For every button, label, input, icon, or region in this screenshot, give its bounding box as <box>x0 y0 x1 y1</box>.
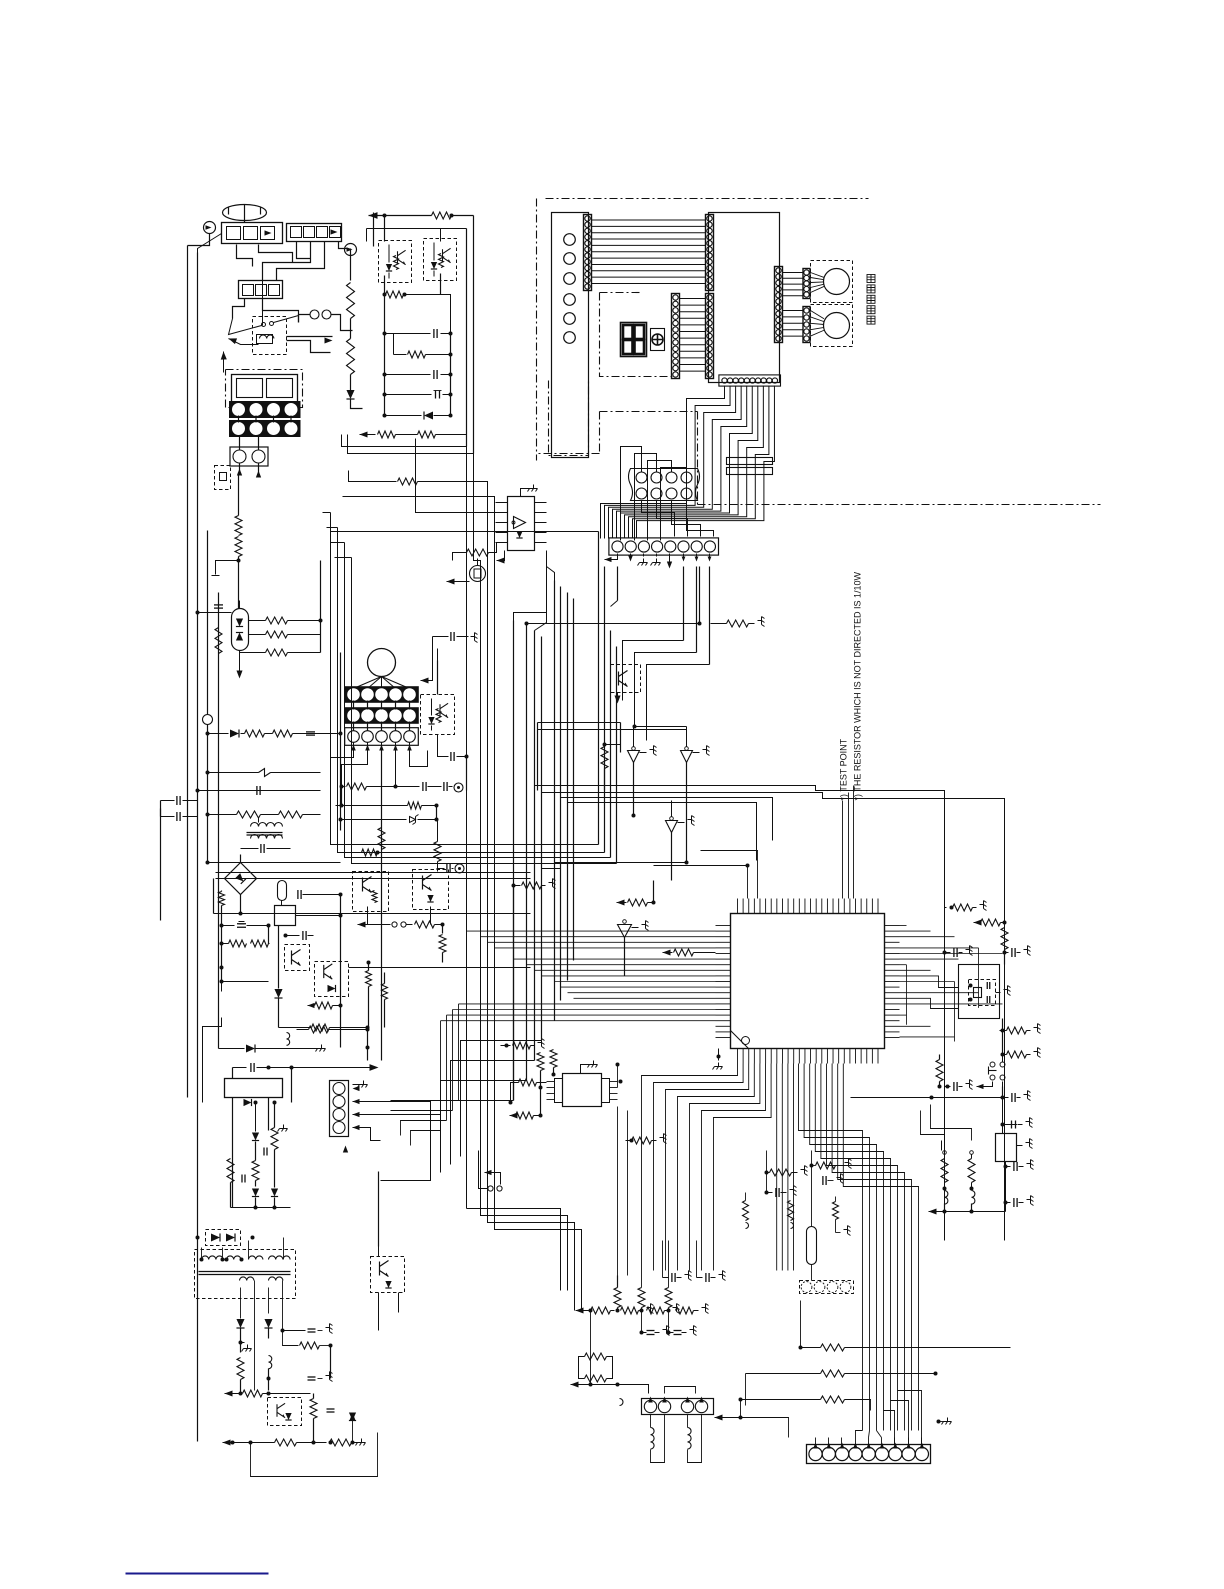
bottom fanout <box>642 1064 738 1271</box>
bus verticals group A with step tops <box>342 435 467 1191</box>
jumper link J1 <box>485 1170 492 1175</box>
resistor R40 vertical <box>271 1128 278 1150</box>
diode arrow <box>349 1413 356 1421</box>
right fanout lines <box>900 925 907 927</box>
key buttons <box>564 234 576 246</box>
inverter G1 <box>633 727 635 747</box>
connector strip CN10 right <box>706 215 714 291</box>
oscillator X2 <box>470 566 486 582</box>
fuse F1 <box>310 310 319 319</box>
capacitor C26 gnd <box>1004 1201 1008 1205</box>
CN22 pin arrows <box>648 1397 653 1403</box>
regulator U14 <box>275 906 296 926</box>
connector CN1 <box>222 223 283 244</box>
U10 top pins <box>737 899 739 914</box>
photocoupler PC1 <box>379 241 412 283</box>
display box boundary <box>600 293 673 377</box>
connector CN21 9pin <box>807 1445 931 1464</box>
arrow resistor R31 <box>974 919 982 925</box>
resistor R56 gnd <box>765 1171 769 1175</box>
row y1332 zeners <box>640 1331 644 1335</box>
horizontal bus y785-802 to right column <box>535 786 945 1241</box>
resistor R3b row <box>393 334 395 355</box>
svg-text:*) TEST POINT: *) TEST POINT <box>839 738 849 800</box>
curl <box>620 1399 624 1406</box>
capacitor C2 <box>383 373 387 377</box>
diode D17 <box>278 926 280 989</box>
bus verticals group C <box>554 581 556 1021</box>
resistor R61 R62 row <box>220 942 224 946</box>
svg-text:*) THE RESISTOR WHICH IS NOT D: *) THE RESISTOR WHICH IS NOT DIRECTED IS… <box>853 571 863 800</box>
buzzer strip CN12b <box>803 307 810 343</box>
wire <box>218 593 220 661</box>
resistor R17 <box>279 811 303 818</box>
terminal strip TS1 row2 <box>230 421 301 437</box>
resistor R34 <box>1007 1051 1027 1058</box>
diode D12 D13 vertical <box>252 1189 259 1197</box>
resistor R50 gnd <box>630 1139 634 1143</box>
bridge rectifier DB1 <box>225 863 257 895</box>
resistor R35 vertical <box>936 1060 943 1082</box>
squiggle resistor RV2 <box>788 1201 794 1221</box>
capacitor C21 gnd <box>1003 951 1007 955</box>
arrow to heater <box>229 339 259 345</box>
varistor ZNR1 <box>232 609 249 651</box>
thermal fuse / heater resistor R-line <box>350 249 352 281</box>
transformer T1 <box>251 823 267 827</box>
transistor Q1 in dashed box <box>611 665 641 693</box>
resistor R5 <box>418 431 436 438</box>
bottom fanout middle <box>776 1064 778 1271</box>
eeprom U12 <box>563 1074 602 1107</box>
relay RY1 <box>253 317 287 355</box>
diode D1 row <box>383 414 387 418</box>
wire feeds <box>921 1111 945 1141</box>
wires below motor <box>353 743 355 749</box>
buzzer strip CN12a <box>803 269 810 299</box>
capacitor C31 <box>263 1148 265 1156</box>
wire <box>1002 1055 1004 1063</box>
arrow right <box>292 1067 371 1069</box>
wire <box>239 464 241 475</box>
row y924 under PC boxes <box>358 921 366 927</box>
diode D15 <box>236 1319 244 1328</box>
wire <box>216 872 531 874</box>
horizontal pair from left y872 y878 <box>216 872 531 874</box>
arrow resistor mid <box>663 949 671 955</box>
resistor R11 <box>266 617 288 624</box>
left fanout lines <box>467 930 716 932</box>
small box E3 <box>215 466 231 490</box>
resistor R57 gnd <box>810 1164 814 1168</box>
left rail bottom <box>198 1441 223 1443</box>
resistor R30 gnd <box>950 906 954 910</box>
resistor R43 vertical <box>237 1358 244 1380</box>
transformer top leads <box>201 1248 203 1260</box>
photocoupler PC4 <box>268 1398 302 1426</box>
gnd of U12 <box>581 1065 591 1074</box>
U2 top gnd <box>521 489 531 497</box>
resistor R66 vertical <box>439 935 446 953</box>
resistor pair R54 R55 <box>585 1353 607 1360</box>
resistor R3 <box>383 293 387 297</box>
tact switch SW1 <box>990 1062 995 1067</box>
capacitor C32 <box>241 1175 243 1183</box>
capacitor C30 <box>233 1067 247 1069</box>
right bus bottom <box>931 1240 945 1242</box>
motor terminal row2 <box>345 708 419 724</box>
bottom row 1 <box>225 1390 233 1396</box>
boundary dash-dot near display <box>599 412 601 454</box>
resistor R65 <box>312 1024 330 1031</box>
arrow row y1384 <box>571 1381 579 1387</box>
resistor R15 <box>273 730 293 737</box>
connector CN3 <box>239 281 283 299</box>
capacitor C41 gnd <box>697 1277 703 1279</box>
resistor R12 <box>266 631 288 638</box>
connector CN13 10pin <box>719 375 781 386</box>
junction wire <box>555 862 687 864</box>
solenoid SL1 <box>650 1415 652 1428</box>
motor leads <box>354 677 382 689</box>
resistor R4 <box>378 431 396 438</box>
row y819 <box>341 819 407 821</box>
bus verticals group B <box>513 621 515 1101</box>
motor terminal row3 <box>345 728 419 746</box>
wire <box>340 653 342 831</box>
ribbon wires 3 <box>783 272 803 274</box>
capacitor C51 <box>286 935 300 937</box>
row y805 <box>341 787 343 806</box>
display main board <box>709 213 780 383</box>
resistor R59b vertical <box>550 1050 557 1068</box>
photocoupler PC5 <box>353 872 389 912</box>
capacitor C1 <box>383 332 387 336</box>
inductor L2 <box>269 1356 272 1369</box>
arrow resistor row y1115 <box>510 1112 518 1118</box>
motor M1 <box>368 649 396 677</box>
resistor R16 <box>237 811 261 818</box>
capacitor C42 gnd <box>765 1191 769 1195</box>
resistor R59c <box>519 1079 537 1086</box>
CN20 arrows <box>353 1084 361 1086</box>
staircase down-left y844-880 <box>331 513 599 845</box>
squiggle resistor RV3 <box>833 1202 839 1220</box>
zener cap row y925 <box>220 924 224 928</box>
right link to crystal <box>900 958 959 960</box>
driver IC U2 <box>508 497 535 551</box>
photocoupler PC2 <box>424 239 457 281</box>
solenoid SL2 <box>687 1415 689 1428</box>
arrow <box>447 578 455 584</box>
capacitor C8 <box>450 752 452 761</box>
inverter G2 <box>685 747 689 751</box>
long wire y531 <box>331 531 599 533</box>
capacitor C50 <box>287 895 294 897</box>
transistor Q2 box <box>285 945 310 971</box>
gnd mid <box>239 1341 243 1345</box>
row y1310 resistors <box>576 1307 584 1313</box>
gnd right <box>937 1420 941 1424</box>
resistor R14 <box>245 730 265 737</box>
inverter G4 <box>623 920 627 924</box>
resistor R64 vertical <box>382 984 388 1000</box>
footer line <box>126 1573 269 1575</box>
wires into CN21 <box>789 1431 816 1438</box>
wires between strips <box>238 416 240 423</box>
resistor R60 vertical <box>219 892 225 906</box>
resistor R2 <box>432 212 452 219</box>
resistor R13 <box>266 649 288 656</box>
diode D11 vertical <box>252 1133 259 1141</box>
diode D2 row <box>360 431 368 437</box>
capacitor C40 gnd <box>663 1277 669 1279</box>
bus verticals to CN21 <box>862 1180 864 1431</box>
wire <box>233 299 245 319</box>
arrow left CN21 <box>715 1414 723 1420</box>
photocoupler PC7 <box>315 962 349 997</box>
test point terminal TP1 <box>437 868 445 870</box>
buzzer BZ2 <box>811 305 853 347</box>
inductor L1 <box>259 769 271 777</box>
resistor R41 vertical <box>227 1159 234 1183</box>
wire U2 pin feed <box>416 439 496 513</box>
wire to dashed box E4 <box>221 982 223 992</box>
membrane key panel <box>552 213 589 458</box>
lamp <box>203 715 213 725</box>
horizontal wire y1097 <box>851 1097 932 1099</box>
res R23 with gnd <box>512 884 516 888</box>
capacitor C5 <box>176 796 178 805</box>
wire <box>384 276 386 295</box>
wire left rail <box>187 311 189 531</box>
wire bus under bridge <box>214 913 531 915</box>
capacitor C2b row <box>383 393 387 397</box>
CN21 pin arrows <box>813 1443 818 1449</box>
resistor R18 vertical <box>378 828 385 850</box>
top pins up wires <box>654 866 748 899</box>
wire <box>287 341 331 353</box>
capacitor C43 gnd <box>812 1180 818 1182</box>
horizontal bus y623 long <box>527 623 700 625</box>
connector CN20 4pin vertical <box>330 1081 349 1137</box>
terminal links <box>353 701 355 710</box>
buzzer strip CN11 <box>775 267 783 343</box>
capacitor C6 <box>260 844 262 853</box>
motor terminal row1 <box>345 687 419 703</box>
capacitor C7 <box>450 632 452 641</box>
ribbon connector CN14 2x4 <box>629 469 700 501</box>
arrow resistor at top <box>617 899 625 905</box>
capacitor C33 <box>327 1408 335 1410</box>
crystal circuit box <box>959 965 1000 1019</box>
wires right of PC7 <box>349 967 531 969</box>
gnd at left bottom of mcu <box>717 1055 721 1059</box>
dashed connector CN23 <box>800 1281 854 1294</box>
wires CN14 top nest <box>621 447 642 541</box>
main switch wires <box>262 281 264 326</box>
ground terminal E2 <box>339 242 347 249</box>
arrow resistor row y1005 <box>308 1003 315 1008</box>
connector CN15 8pin <box>609 538 719 555</box>
ground terminal E1 <box>204 222 216 234</box>
wire top row <box>287 1033 290 1046</box>
wire <box>237 245 253 267</box>
diode pair box D14 <box>206 1230 241 1246</box>
wire left rails <box>187 531 189 1098</box>
resistor R19 <box>362 849 378 856</box>
U2 pins <box>496 502 508 504</box>
wire step group to bottom <box>467 1209 561 1291</box>
wire <box>384 295 386 334</box>
wire <box>635 721 687 727</box>
CN15 pin arrows <box>605 557 612 562</box>
microcontroller U10 <box>731 914 885 1049</box>
photocoupler PC3 <box>421 695 455 735</box>
wire <box>373 213 375 247</box>
photocoupler PC8 <box>371 1257 405 1293</box>
capacitor C23 gnd <box>1001 1096 1005 1100</box>
timer block A1 <box>226 370 303 408</box>
smoothing network <box>254 1311 256 1391</box>
U10 bottom pins <box>737 1049 739 1064</box>
label control circuit <box>867 275 875 283</box>
wire <box>466 757 468 791</box>
fuse pill F2 <box>278 881 287 901</box>
bottom row 2 <box>223 1439 231 1445</box>
resistor R6 on step wire <box>349 471 397 482</box>
terminal strip TS1 row1 <box>230 402 301 418</box>
resistor R59 vertical <box>537 1053 544 1071</box>
horizontal pair y722 y729 <box>538 722 621 724</box>
capacitor C22 gnd <box>946 1085 950 1089</box>
resistor R51 vertical <box>614 1288 621 1308</box>
zener pair C24 gnd <box>1001 1123 1005 1127</box>
resistor R33 gnd <box>1001 1029 1005 1033</box>
wire top rail <box>369 212 378 219</box>
left fanout verticals lower <box>458 1004 460 1101</box>
wire left-step at bottom <box>381 1101 514 1181</box>
connector CN4 <box>230 447 268 466</box>
transformer bottom leads <box>240 1288 242 1319</box>
left pin wires of U2 <box>323 512 331 514</box>
resistor R20 <box>467 549 489 556</box>
wire <box>187 246 189 311</box>
resistor R10 <box>238 473 240 516</box>
power IC U13 <box>225 1079 283 1098</box>
connector CN2 <box>287 224 342 242</box>
control panel boundary <box>536 199 538 461</box>
junction dots <box>220 966 224 970</box>
ribbon wires <box>592 219 706 221</box>
resistor R21 with gnd <box>727 620 749 627</box>
main transformer T2 <box>195 1250 296 1299</box>
wires from U13 <box>232 1098 234 1208</box>
wire down from PC1 <box>384 416 386 435</box>
LED window <box>651 329 665 351</box>
bottom loop <box>251 1433 378 1477</box>
right vertical from supply <box>367 1048 369 1061</box>
thermistor branch <box>941 1141 943 1151</box>
wire <box>320 561 322 653</box>
connector CN22 4pin <box>642 1399 714 1415</box>
ribbon wires 2 <box>680 298 706 300</box>
wires from CN13 down staircase <box>601 386 725 539</box>
resistor R58 gnd <box>505 1044 509 1048</box>
inverter G3 <box>670 817 674 821</box>
regulator U11 <box>996 1134 1017 1162</box>
connector strip CN10 left <box>584 215 592 291</box>
flat jumper JP1 <box>727 458 773 465</box>
capacitor C25 gnd <box>1004 1165 1008 1169</box>
7-segment display DS1 <box>621 323 647 357</box>
diode D3 <box>206 732 210 736</box>
verticals to caps <box>617 1107 619 1276</box>
resistor R22 vertical <box>601 747 608 769</box>
resistor R32 vertical <box>1001 928 1008 950</box>
supply to bus <box>291 1103 293 1111</box>
wire <box>473 216 475 454</box>
resistor R44 vertical <box>310 1399 317 1419</box>
resistor R53 vertical <box>665 1288 672 1308</box>
arrow into motor node <box>421 677 429 683</box>
resistor ladder to CN21 <box>821 1344 845 1351</box>
U10 right pins <box>885 925 900 927</box>
resistor R52 vertical <box>638 1288 645 1308</box>
squiggle resistor RV1 <box>743 1201 749 1221</box>
display pcb strip right <box>706 294 714 379</box>
resistor R19b vertical <box>434 842 441 862</box>
thermistor TH1 <box>807 1227 817 1265</box>
wires CN14 bottom to CN15 <box>642 501 675 537</box>
capacitor C20 gnd <box>943 951 947 955</box>
diode D16 <box>264 1319 272 1328</box>
wire from CN15 pins down <box>617 567 619 601</box>
display pcb strip left <box>672 294 680 379</box>
arrow down <box>239 661 241 677</box>
gnd row arrow <box>929 1208 937 1214</box>
bottom fanout right group <box>799 1064 863 1431</box>
buzzer BZ1 <box>811 261 853 303</box>
diode D10 <box>219 1048 245 1050</box>
bottom rail <box>231 1207 291 1209</box>
resistor R42 vertical <box>252 1161 259 1181</box>
U10 left pins <box>716 925 731 927</box>
photocoupler PC6 <box>413 870 449 910</box>
wire <box>206 861 210 865</box>
AC plug P1 <box>223 205 267 221</box>
row y786 with caps and terminal <box>340 785 344 789</box>
wire <box>198 790 321 792</box>
bus verticals group D <box>598 532 600 845</box>
caps and resistors rows <box>283 1307 306 1331</box>
resistor R63 vertical <box>366 971 372 987</box>
